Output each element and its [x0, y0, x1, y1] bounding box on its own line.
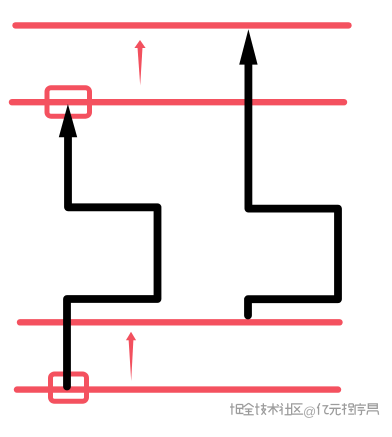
red timeline line 2: [12, 99, 344, 105]
glyph yuan2: [367, 404, 379, 415]
glyph she: [279, 403, 291, 415]
red highlight box (top, on line 2): [47, 88, 90, 117]
glyph shu: [267, 403, 279, 415]
glyph jin: [243, 403, 253, 415]
black arrowhead (left): [59, 104, 77, 137]
svg-text:@: @: [303, 404, 316, 419]
small red up-arrow (bottom gap): [126, 332, 136, 381]
glyph cheng: [342, 403, 354, 415]
glyph ji: [255, 403, 267, 415]
red timeline line 3: [20, 319, 340, 325]
glyph qu: [292, 404, 304, 414]
watermark text: 掘金技术社区 @亿元程序员 (drawn as strokes; grader lacks CJK font): [230, 403, 379, 419]
black zigzag wire (right): [248, 62, 338, 316]
black arrowhead (right): [239, 29, 257, 64]
glyph yuan: [329, 404, 341, 414]
small red up-arrow (top gap): [134, 40, 145, 86]
red timeline line 1 (top): [16, 22, 349, 28]
red timeline line 4 (bottom): [17, 386, 338, 392]
black zigzag wire (left): [67, 133, 158, 387]
red highlight box (bottom, on line 4): [51, 374, 87, 401]
glyph ju: [230, 403, 243, 415]
glyph xu: [355, 403, 366, 415]
glyph yi: [317, 403, 329, 415]
